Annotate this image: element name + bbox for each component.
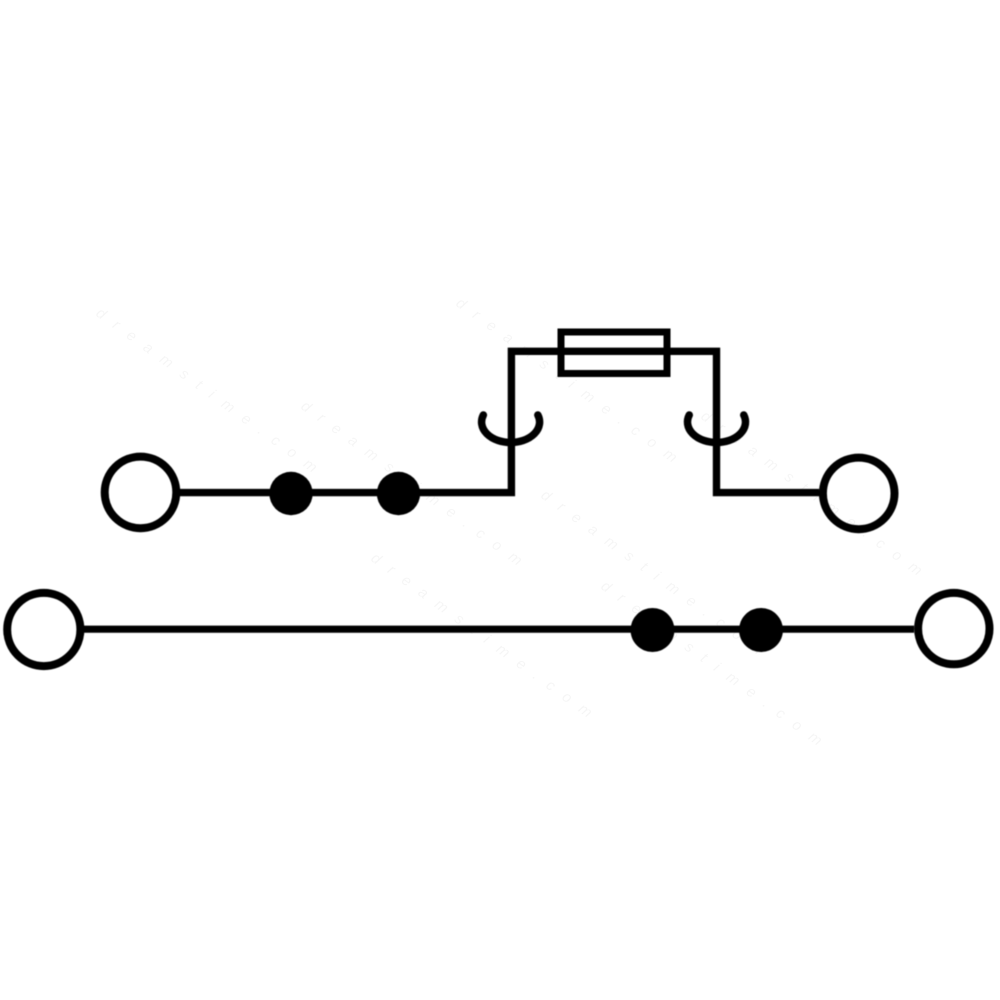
fuse F1 (rectangle with conductor through the middle) — [561, 332, 667, 374]
node: contact dot 3 on lower conductor — [631, 608, 675, 652]
wire: upper tier conductor with fuse bridge (left terminal to right terminal) — [180, 351, 819, 492]
terminal circle X2.2 (lower right screw terminal) — [918, 593, 989, 664]
terminal circle X1.1 (upper left screw terminal) — [105, 457, 177, 529]
watermark (faint diagonal stock-photo text band) — [93, 294, 929, 751]
node: contact dot 4 on lower conductor — [739, 608, 783, 652]
terminal circle X2.1 (lower left screw terminal) — [7, 593, 80, 666]
node: contact dot 2 on upper conductor — [377, 472, 420, 515]
fuse holder contact hook (right plug receptacle) — [688, 415, 746, 443]
terminal circle X1.2 (upper right screw terminal) — [823, 458, 895, 530]
node: contact dot 1 on upper conductor — [269, 472, 312, 515]
wire: lower tier feed-through conductor — [84, 626, 914, 633]
fuse holder contact hook (left plug receptacle) — [482, 415, 540, 443]
